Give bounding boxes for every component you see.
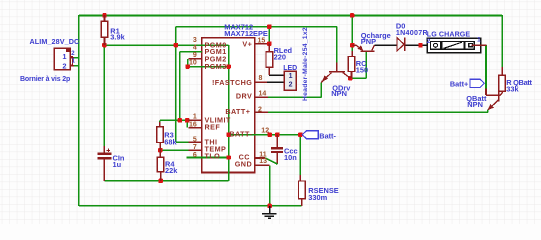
svg-text:150: 150	[356, 66, 368, 75]
pin stub ALIM pin bottom	[70, 65, 74, 67]
diode D0 1N4007	[397, 38, 404, 51]
wire BATT+ pin2 row to QBatt emitter	[255, 111, 488, 113]
component RLG CHARGE	[427, 38, 480, 52]
wire riser TLO junction to upper rail	[228, 158, 230, 181]
wire TEMP pin7 row from R3/R4 junction	[160, 149, 188, 151]
pin QDrv emitter end	[321, 81, 322, 82]
wire black Qcharge collector to D0 anode	[374, 44, 397, 46]
pin Ccc top	[276, 135, 278, 147]
junction Qcharge emitter / RC top	[350, 43, 354, 47]
svg-text:330m: 330m	[308, 193, 327, 202]
pin R1 bottom	[104, 37, 106, 45]
svg-text:TLO: TLO	[205, 152, 221, 161]
pin RLed bottom	[268, 67, 270, 75]
svg-text:DRV: DRV	[236, 92, 252, 101]
junction PGM1 vertical / REF rail	[178, 118, 182, 122]
svg-text:NPN: NPN	[467, 100, 483, 109]
pin R3 bottom	[159, 143, 161, 151]
junction D0 cathode / RLG wire	[418, 43, 422, 47]
svg-text:Batt+: Batt+	[450, 79, 468, 88]
svg-text:3.9k: 3.9k	[110, 32, 125, 41]
wire R3 top riser	[159, 120, 161, 126]
wire RLG right drop to QBatt base	[485, 45, 487, 88]
wire black FASTCHG pin8 to LED pin2	[267, 81, 284, 83]
svg-text:220: 220	[274, 53, 286, 62]
wire GND drop from pin13	[269, 165, 271, 206]
resistor R1 body	[101, 21, 108, 37]
wire Qcharge base vertical	[365, 52, 367, 79]
svg-text:6: 6	[193, 152, 197, 159]
junction Ccc top / BATT- row	[275, 133, 279, 137]
svg-text:LG CHARGE: LG CHARGE	[427, 30, 471, 38]
junction R1 top on top rail	[102, 13, 106, 17]
svg-text:14: 14	[259, 91, 267, 98]
junction x352 on top rail	[350, 13, 354, 17]
wire diagonal pin11 to Ccc bottom	[265, 158, 277, 164]
svg-text:2: 2	[62, 61, 66, 70]
svg-text:Bornier à vis 2p: Bornier à vis 2p	[20, 76, 70, 83]
junction ground tap on bottom rail	[267, 204, 271, 208]
svg-text:1: 1	[477, 37, 481, 44]
wire vertical x228.5 through IC	[228, 45, 230, 157]
resistor RLed body	[266, 52, 273, 68]
svg-text:5: 5	[193, 136, 197, 143]
resistor R4 body	[157, 157, 164, 172]
net label Batt+ (pennant)	[470, 79, 484, 87]
wire TLO pin6 row to x228.5	[187, 157, 229, 159]
pin QDrv base lead	[336, 63, 338, 71]
ground symbol	[269, 206, 271, 214]
pin stub 2 BATT+	[255, 111, 268, 113]
junction R3/R4/TEMP	[158, 148, 162, 152]
wire Batt- down to RSENSE	[299, 135, 301, 175]
svg-text:15: 15	[258, 38, 266, 45]
svg-text:1u: 1u	[113, 160, 122, 169]
resistor RQBatt body	[499, 75, 506, 91]
junction BATT- row / x228 vertical	[226, 133, 230, 137]
svg-text:22k: 22k	[165, 166, 178, 175]
connector LED (header 1x2)	[284, 71, 296, 90]
wire black RLed bottom to LED pin1	[269, 74, 284, 76]
wire pin1-pin16 link	[186, 120, 188, 127]
pin stub 9 PGM2	[189, 58, 202, 60]
wire PGM0 row from R1 bottom to x228 bend	[104, 44, 228, 46]
pin stub 14 DRV	[255, 96, 268, 98]
wire right vertical from top rail to RQBatt	[501, 15, 503, 67]
wire QDrv emitter riser	[320, 83, 322, 98]
pin RQBatt bottom	[501, 91, 503, 93]
svg-text:REF: REF	[205, 122, 221, 131]
svg-text:Batt-: Batt-	[319, 131, 336, 140]
pin CIn top	[103, 146, 105, 152]
svg-text:33k: 33k	[506, 85, 519, 94]
svg-text:1: 1	[193, 114, 197, 121]
pin stub 7 TEMP	[189, 149, 202, 151]
pin Ccc bottom	[276, 153, 278, 164]
pin RC top	[351, 51, 353, 57]
svg-text:ALIM_28V_DC: ALIM_28V_DC	[30, 37, 80, 46]
svg-text:LED: LED	[283, 65, 297, 72]
pin QBatt base lead h	[486, 94, 498, 96]
resistor RSENSE body	[299, 181, 306, 199]
pin RQBatt top	[501, 67, 503, 75]
pin R4 bottom	[160, 172, 162, 181]
junction pin15 V+ / RLed	[267, 42, 271, 46]
transistor Qcharge PNP	[360, 50, 374, 52]
svg-text:2: 2	[258, 107, 262, 114]
svg-text:1N4007R: 1N4007R	[396, 29, 428, 37]
svg-text:Header-Male-254_1x2: Header-Male-254_1x2	[302, 27, 309, 101]
svg-text:10n: 10n	[284, 153, 297, 162]
pin RC bottom	[351, 72, 353, 79]
pin RSENSE top	[299, 175, 301, 181]
wire top rail V+ (net N1)	[79, 15, 502, 17]
wire THI pin5 row	[176, 141, 189, 143]
svg-text:3: 3	[193, 37, 197, 44]
wire QDrv collector to Qcharge base bottom	[350, 77, 366, 79]
svg-text:1: 1	[289, 73, 293, 80]
junction PGM3 row / PGM2 link	[185, 64, 189, 68]
wire PGM2-PGM3 link vertical	[187, 59, 189, 66]
pin stub 1 VLIMIT	[189, 119, 202, 121]
svg-text:4: 4	[193, 45, 197, 52]
junction PGM3 row / x228 vertical	[226, 64, 230, 68]
pin stub ALIM pin top	[70, 57, 74, 59]
svg-text:10: 10	[189, 59, 197, 66]
resistor R1 3.9k	[104, 15, 106, 21]
pin stub 5 THI	[189, 141, 202, 143]
wire vertical x180 PGM1 to REF rail	[179, 52, 181, 121]
svg-text:1: 1	[62, 52, 66, 61]
connector J ALIM_28V_DC (Bornier a vis 2p)	[54, 48, 70, 70]
op-amp U1 MAX712 IC body	[202, 38, 255, 173]
junction PGM0 row / x176 vertical	[174, 43, 178, 47]
svg-text:16: 16	[189, 121, 197, 128]
wire QDrv base drop from wire2	[336, 27, 338, 63]
wire DRV pin14 to QDrv emitter riser	[255, 96, 322, 98]
junction Batt- label	[298, 133, 302, 137]
junction BATT- row pin12	[268, 133, 272, 137]
junction TLO row / riser	[226, 155, 230, 159]
svg-text:7: 7	[193, 144, 197, 151]
wire left vertical from ALIM to bottom rail	[78, 15, 80, 206]
svg-text:2: 2	[289, 81, 293, 88]
svg-text:BATT-: BATT-	[229, 130, 252, 139]
wire RSENSE bottom to bottom rail	[301, 199, 303, 206]
svg-text:V+: V+	[242, 39, 252, 48]
pin stub 8 FASTCHG	[255, 81, 267, 83]
resistor RC body	[348, 57, 355, 72]
wire ALIM pin top to vertical	[74, 57, 79, 59]
svg-text:8: 8	[259, 75, 263, 82]
junction RLed on wire2	[267, 25, 271, 29]
junction R4 bottom / upper rail	[159, 179, 163, 183]
pin QBatt base lead v	[485, 89, 487, 96]
wire bottom rail (GND net)	[79, 205, 302, 207]
pin stub 13 GND	[255, 164, 270, 166]
svg-text:13: 13	[259, 158, 267, 165]
pin CIn bottom	[103, 159, 105, 180]
wire vertical x176 (PGM0/THI net)	[175, 27, 177, 143]
svg-text:NPN: NPN	[331, 89, 347, 98]
pin stub 11 CC	[255, 157, 265, 159]
svg-text:9: 9	[193, 52, 197, 59]
svg-text:2: 2	[427, 38, 431, 45]
junction QDrv collector / RC bottom	[348, 76, 352, 80]
resistor R3 68k	[159, 122, 161, 127]
wire RLed top from wire2	[268, 27, 270, 44]
wire dark red RLG right terminal out	[472, 44, 487, 46]
wire black D0 cathode to RLG CHARGE	[405, 44, 427, 46]
resistor R3 body	[157, 127, 164, 143]
wire PGM1 pin4	[180, 51, 202, 53]
wire REF rail (wireB) to pin1	[160, 119, 187, 121]
wire2 horizontal y27 PGM net	[176, 26, 337, 28]
svg-text:PNP: PNP	[361, 37, 376, 46]
pin R4 top	[159, 150, 161, 157]
svg-text:68k: 68k	[164, 137, 177, 146]
svg-text:!FASTCHG: !FASTCHG	[212, 78, 252, 87]
wire QBatt emitter riser	[487, 109, 489, 112]
pin stub 16 REF	[189, 127, 202, 129]
net label Batt- (pennant)	[302, 131, 318, 139]
wire from R1 bottom junction down to CIn	[103, 45, 105, 146]
pin RLed top	[268, 44, 270, 52]
wire x352 from top rail to RC emitter junction	[351, 15, 353, 51]
wire BATT- pin12 row to Batt- label	[229, 134, 301, 136]
pin stub 15 V+	[255, 43, 268, 45]
wire upper bottom rail (BATT- net)	[104, 180, 228, 182]
junction R1 bottom / CIn	[102, 43, 106, 47]
svg-text:GND: GND	[235, 159, 252, 168]
junction pin1 / REF rail	[185, 118, 189, 122]
svg-text:PGM3: PGM3	[205, 62, 227, 71]
wire ALIM pin bottom to vertical	[74, 65, 79, 67]
wire PGM3 row to x228.5	[188, 66, 229, 68]
svg-text:12: 12	[261, 127, 269, 134]
